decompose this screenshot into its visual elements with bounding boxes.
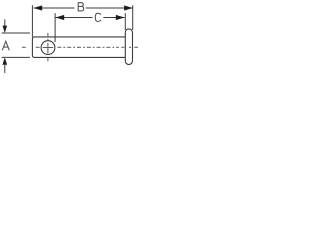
arrowhead B right	[124, 5, 133, 10]
horizontal centerline dashes	[22, 46, 138, 48]
extension line A bottom	[2, 56, 30, 58]
arrowhead C left	[56, 15, 65, 20]
extension line B left (pin left edge)	[31, 5, 33, 37]
cotter hole circle	[41, 41, 55, 55]
arrowhead A up	[3, 57, 8, 64]
extension line A top	[2, 32, 30, 34]
vertical centerline dashes through hole	[47, 33, 49, 61]
pin head capsule	[125, 29, 132, 65]
label C	[95, 13, 101, 21]
arrowhead A down	[3, 26, 8, 33]
arrowhead C right	[116, 15, 125, 20]
label B	[78, 3, 84, 11]
pin body outline	[32, 37, 125, 58]
extension line C left (hole right edge)	[54, 13, 56, 42]
dimension line B	[34, 7, 75, 9]
extension line C right (head left edge)	[124, 13, 126, 30]
dimension line C	[56, 17, 93, 19]
extension line B right (head right edge)	[132, 5, 134, 30]
dimension line A	[4, 19, 6, 28]
label A	[2, 41, 9, 50]
arrowhead B left	[34, 5, 43, 10]
